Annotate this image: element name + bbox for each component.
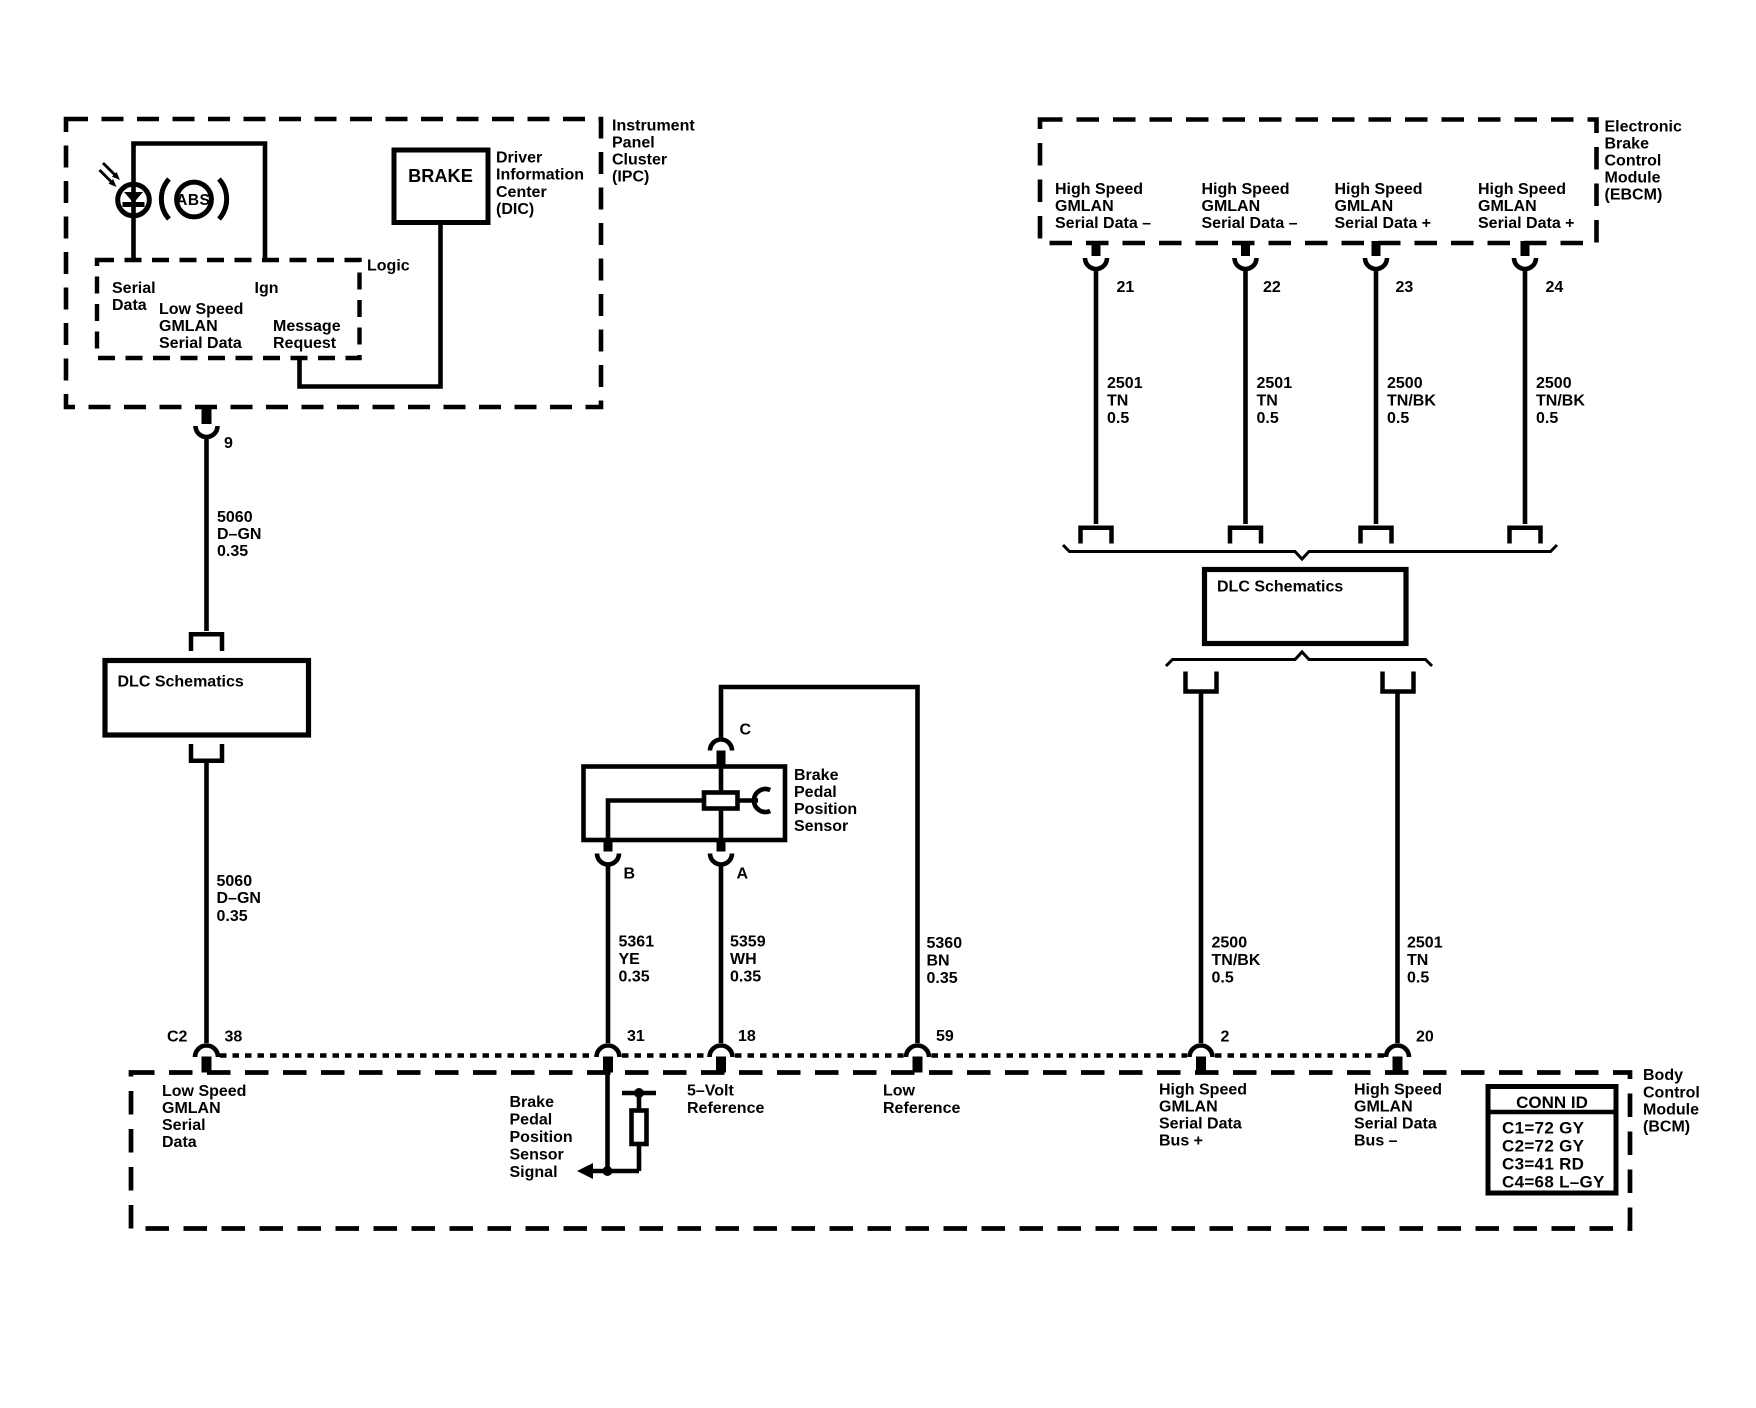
svg-text:Electronic: Electronic xyxy=(1605,119,1682,136)
brace: gathering EBCM wires into DLC xyxy=(1063,545,1557,559)
svg-text:Serial Data +: Serial Data + xyxy=(1335,215,1432,232)
svg-text:Body: Body xyxy=(1643,1067,1683,1084)
svg-text:B: B xyxy=(624,866,636,883)
connector pin 20: stub into BCM xyxy=(1393,1057,1403,1073)
wire: 5361 YE from pin B to BCM pin 31 xyxy=(606,864,611,1044)
svg-text:5359: 5359 xyxy=(730,934,766,951)
svg-text:TN/BK: TN/BK xyxy=(1212,952,1261,969)
label: circuit 2500 TN/BK 0.5 (pin 24) xyxy=(1536,375,1585,427)
svg-text:Request: Request xyxy=(273,335,337,352)
svg-text:2: 2 xyxy=(1221,1029,1230,1046)
connector staple above wire to pin 20 xyxy=(1383,672,1414,692)
svg-text:Information: Information xyxy=(496,167,584,184)
svg-text:Serial: Serial xyxy=(112,280,156,297)
wire: 5060 D-GN from pin 9 to DLC Schematics xyxy=(204,436,209,631)
svg-text:Low Speed: Low Speed xyxy=(159,301,243,318)
svg-text:TN: TN xyxy=(1407,952,1428,969)
svg-text:0.5: 0.5 xyxy=(1536,410,1558,427)
connector staple below wire 23 xyxy=(1361,528,1392,544)
svg-text:2500: 2500 xyxy=(1387,375,1423,392)
connector pin 2: stub into BCM xyxy=(1196,1057,1206,1073)
svg-text:20: 20 xyxy=(1416,1029,1434,1046)
svg-text:(BCM): (BCM) xyxy=(1643,1119,1690,1136)
svg-text:Brake: Brake xyxy=(1605,136,1650,153)
svg-text:C2: C2 xyxy=(167,1029,188,1046)
module box: Body Control Module (BCM) dashed outline xyxy=(131,1073,1630,1229)
label: 5-Volt Reference xyxy=(687,1083,764,1118)
svg-text:59: 59 xyxy=(936,1028,954,1045)
svg-text:Center: Center xyxy=(496,184,547,201)
connector pin 20: female dome at BCM xyxy=(1386,1046,1409,1058)
svg-text:5060: 5060 xyxy=(217,873,253,890)
svg-text:High Speed: High Speed xyxy=(1202,181,1290,198)
table: CONN ID box xyxy=(1488,1087,1616,1194)
symbol: left parenthesis of (ABS) xyxy=(161,179,169,219)
connector staple below wire 22 xyxy=(1230,528,1261,544)
svg-text:0.35: 0.35 xyxy=(217,543,248,560)
svg-text:Serial Data: Serial Data xyxy=(159,335,242,352)
svg-text:(EBCM): (EBCM) xyxy=(1605,187,1663,204)
svg-text:Data: Data xyxy=(112,297,147,314)
table: CONN ID header divider xyxy=(1491,1110,1614,1115)
label: High Speed GMLAN Serial Data + (pin 23) xyxy=(1335,181,1432,232)
connector staple above left DLC Schematics box xyxy=(191,634,222,651)
LED diode triangle xyxy=(124,192,143,203)
svg-text:Serial: Serial xyxy=(162,1117,206,1134)
wire: 5060 D-GN from DLC Schematics to BCM pin 38 xyxy=(204,761,209,1043)
svg-text:High Speed: High Speed xyxy=(1354,1082,1442,1099)
label: Message Request xyxy=(273,318,341,352)
wire: BCM internal sensor signal vertical xyxy=(605,1073,610,1172)
svg-text:31: 31 xyxy=(627,1028,645,1045)
svg-text:0.35: 0.35 xyxy=(730,969,761,986)
label: circuit 5359 WH 0.35 xyxy=(730,934,766,986)
LED arrow 1 xyxy=(103,163,120,180)
node: 5-volt supply tap bar xyxy=(622,1091,656,1095)
svg-text:D–GN: D–GN xyxy=(217,890,261,907)
svg-text:Sensor: Sensor xyxy=(510,1147,564,1164)
svg-text:High Speed: High Speed xyxy=(1335,181,1423,198)
label: circuit 2501 TN 0.5 (pin 22) xyxy=(1257,375,1293,427)
svg-text:A: A xyxy=(737,866,749,883)
connector pin 59: female dome at BCM xyxy=(906,1046,929,1058)
wire: 2501 TN from pin 21 xyxy=(1094,268,1099,524)
connector pin 31: female dome at BCM xyxy=(597,1046,620,1058)
wire: potentiometer wiper lead xyxy=(738,798,759,803)
wire: Message Request to BRAKE box xyxy=(300,225,441,387)
component box: Brake Pedal Position Sensor xyxy=(584,767,786,841)
svg-text:C: C xyxy=(740,722,752,739)
svg-text:Pedal: Pedal xyxy=(794,784,837,801)
label: High Speed GMLAN Serial Data - (pin 22) xyxy=(1202,181,1298,232)
svg-text:TN: TN xyxy=(1107,393,1128,410)
svg-text:5360: 5360 xyxy=(927,935,963,952)
symbol: right parenthesis of (ABS) xyxy=(219,179,227,219)
module box: Instrument Panel Cluster (IPC) dashed outline xyxy=(66,119,601,407)
svg-text:0.35: 0.35 xyxy=(217,908,248,925)
label: Brake Pedal Position Sensor xyxy=(794,767,857,835)
svg-text:Serial Data: Serial Data xyxy=(1159,1116,1242,1133)
svg-text:WH: WH xyxy=(730,951,757,968)
svg-text:Serial Data –: Serial Data – xyxy=(1055,215,1151,232)
logic block: IPC internal dashed box xyxy=(97,260,360,358)
connector row: dotted line segment 5 xyxy=(1215,1053,1384,1057)
svg-text:TN/BK: TN/BK xyxy=(1387,393,1436,410)
connector pin 21: stub below EBCM xyxy=(1092,241,1101,256)
svg-text:Serial Data +: Serial Data + xyxy=(1478,215,1575,232)
svg-text:YE: YE xyxy=(619,951,641,968)
svg-text:High Speed: High Speed xyxy=(1159,1082,1247,1099)
svg-text:2501: 2501 xyxy=(1257,375,1293,392)
connector pin B: female cup xyxy=(597,854,619,865)
label: circuit 2500 TN/BK 0.5 (lower) xyxy=(1212,935,1261,987)
connector staple below wire 21 xyxy=(1081,528,1112,544)
svg-text:Module: Module xyxy=(1643,1102,1699,1119)
connector pin C: stub into sensor box xyxy=(717,751,726,769)
svg-text:Control: Control xyxy=(1605,153,1662,170)
svg-text:0.5: 0.5 xyxy=(1407,970,1429,987)
label: Low Speed GMLAN Serial Data (BCM) xyxy=(162,1083,246,1151)
svg-text:ABS: ABS xyxy=(176,192,210,209)
label: circuit 2500 TN/BK 0.5 (pin 23) xyxy=(1387,375,1436,427)
svg-text:High Speed: High Speed xyxy=(1055,181,1143,198)
svg-text:Panel: Panel xyxy=(612,135,655,152)
svg-text:CONN ID: CONN ID xyxy=(1516,1093,1588,1112)
resistor: BCM internal pull-up xyxy=(632,1111,647,1145)
connector pin 24: female cup xyxy=(1514,258,1536,269)
wire: IPC internal loop from ABS lamp top to Ign input xyxy=(134,144,266,261)
svg-text:23: 23 xyxy=(1396,279,1414,296)
connector pin 59: stub into BCM xyxy=(913,1057,923,1073)
wire: BCM internal sensor signal horizontal xyxy=(588,1169,639,1174)
connector pin 18: female dome at BCM xyxy=(710,1046,733,1058)
svg-text:22: 22 xyxy=(1263,279,1281,296)
connector row: dotted line segment 1 xyxy=(220,1053,594,1057)
svg-text:GMLAN: GMLAN xyxy=(1335,198,1394,215)
connector pin 38: stub into BCM xyxy=(202,1057,212,1073)
svg-text:TN/BK: TN/BK xyxy=(1536,393,1585,410)
svg-text:Message: Message xyxy=(273,318,341,335)
label: Driver Information Center (DIC) xyxy=(496,150,584,219)
svg-text:0.35: 0.35 xyxy=(927,970,958,987)
connector staple below wire 24 xyxy=(1510,528,1541,544)
resistor: sensor potentiometer element xyxy=(704,793,738,809)
svg-text:GMLAN: GMLAN xyxy=(1055,198,1114,215)
wire: sensor top loop 5360 BN run xyxy=(721,687,918,1043)
label: Electronic Brake Control Module (EBCM) xyxy=(1605,119,1682,204)
svg-text:21: 21 xyxy=(1117,279,1135,296)
svg-text:Pedal: Pedal xyxy=(510,1112,553,1129)
svg-text:(DIC): (DIC) xyxy=(496,201,534,218)
connector staple above wire to pin 2 xyxy=(1186,672,1217,692)
svg-text:GMLAN: GMLAN xyxy=(1202,198,1261,215)
svg-text:GMLAN: GMLAN xyxy=(1354,1099,1413,1116)
svg-text:0.5: 0.5 xyxy=(1387,410,1409,427)
component box: DLC Schematics (right) xyxy=(1205,570,1407,644)
label: Brake Pedal Position Sensor Signal xyxy=(510,1094,573,1181)
junction: supply tap dot xyxy=(634,1088,644,1098)
svg-text:GMLAN: GMLAN xyxy=(1478,198,1537,215)
svg-text:Sensor: Sensor xyxy=(794,818,848,835)
svg-text:Bus –: Bus – xyxy=(1354,1133,1398,1150)
arrow: sensor signal direction xyxy=(577,1163,593,1179)
connector pin 22: stub below EBCM xyxy=(1241,241,1250,256)
svg-text:5–Volt: 5–Volt xyxy=(687,1083,735,1100)
connector row: dotted line segment 2 xyxy=(622,1053,707,1057)
wire: pull-up resistor top lead xyxy=(637,1093,642,1111)
svg-text:2501: 2501 xyxy=(1407,935,1443,952)
svg-text:DLC Schematics: DLC Schematics xyxy=(118,674,244,691)
connector pin 22: female cup xyxy=(1235,258,1257,269)
svg-text:Bus +: Bus + xyxy=(1159,1133,1203,1150)
svg-text:Brake: Brake xyxy=(794,767,839,784)
svg-text:(IPC): (IPC) xyxy=(612,169,649,186)
wire: pull-up resistor bottom lead xyxy=(637,1144,642,1171)
label: circuit 5060 D-GN 0.35 (upper) xyxy=(217,509,261,560)
wire: 2500 TN/BK from DLC to BCM pin 2 xyxy=(1199,694,1204,1044)
connector pin 23: stub below EBCM xyxy=(1372,241,1381,256)
wire: ABS lamp cathode to Serial Data input xyxy=(131,218,136,260)
svg-text:Serial Data –: Serial Data – xyxy=(1202,215,1298,232)
svg-text:Control: Control xyxy=(1643,1085,1700,1102)
label: circuit 2501 TN 0.5 (pin 21) xyxy=(1107,375,1143,427)
connector pin 21: female cup xyxy=(1085,258,1107,269)
svg-text:Reference: Reference xyxy=(883,1100,960,1117)
component box: BRAKE display (DIC) xyxy=(394,150,488,223)
connector row: dotted line segment 3 xyxy=(735,1053,904,1057)
connector pin 9: stub through IPC edge xyxy=(202,405,212,424)
svg-text:Brake: Brake xyxy=(510,1094,555,1111)
svg-text:Low Speed: Low Speed xyxy=(162,1083,246,1100)
svg-text:2501: 2501 xyxy=(1107,375,1143,392)
svg-text:Reference: Reference xyxy=(687,1100,764,1117)
module box: Electronic Brake Control Module (EBCM) dashed outline xyxy=(1040,120,1597,244)
connector pin 9: female cup xyxy=(196,426,218,437)
connector pin C: female dome above sensor xyxy=(710,740,732,751)
svg-text:TN: TN xyxy=(1257,393,1278,410)
wire: 2501 TN from pin 22 xyxy=(1243,268,1248,524)
connector pin 31: stub into BCM xyxy=(603,1057,613,1073)
svg-text:18: 18 xyxy=(738,1028,756,1045)
svg-text:Instrument: Instrument xyxy=(612,118,695,135)
svg-text:Low: Low xyxy=(883,1083,916,1100)
svg-text:D–GN: D–GN xyxy=(217,526,261,543)
svg-text:0.5: 0.5 xyxy=(1257,410,1279,427)
label: Low Reference xyxy=(883,1083,960,1118)
svg-text:BN: BN xyxy=(927,953,950,970)
connector pin 23: female cup xyxy=(1365,258,1387,269)
svg-text:9: 9 xyxy=(224,435,233,452)
svg-text:Data: Data xyxy=(162,1134,197,1151)
svg-text:DLC Schematics: DLC Schematics xyxy=(1217,579,1343,596)
label: circuit 2501 TN 0.5 (lower) xyxy=(1407,935,1443,987)
wire: sensor internal to pin B xyxy=(608,801,704,841)
connector pin B: stub below sensor box xyxy=(604,840,613,852)
svg-text:Module: Module xyxy=(1605,170,1661,187)
svg-text:Logic: Logic xyxy=(367,258,410,275)
connector pin 38: female dome at BCM xyxy=(195,1046,218,1058)
wire: sensor internal vertical C to A xyxy=(719,767,724,841)
svg-text:5060: 5060 xyxy=(217,509,253,526)
svg-text:0.5: 0.5 xyxy=(1212,970,1234,987)
svg-text:38: 38 xyxy=(225,1029,243,1046)
svg-text:Signal: Signal xyxy=(510,1164,558,1181)
svg-text:2500: 2500 xyxy=(1536,375,1572,392)
label: Instrument Panel Cluster (IPC) xyxy=(612,118,695,186)
label: Low Speed GMLAN Serial Data xyxy=(159,301,243,352)
svg-text:2500: 2500 xyxy=(1212,935,1248,952)
label: High Speed GMLAN Serial Data Bus - xyxy=(1354,1082,1442,1150)
svg-text:24: 24 xyxy=(1546,279,1564,296)
wire: 2500 TN/BK from pin 23 xyxy=(1374,268,1379,524)
svg-text:High Speed: High Speed xyxy=(1478,181,1566,198)
wire: 2501 TN from DLC to BCM pin 20 xyxy=(1395,694,1400,1044)
svg-text:0.5: 0.5 xyxy=(1107,410,1129,427)
svg-text:0.35: 0.35 xyxy=(619,969,650,986)
connector pin A: stub below sensor box xyxy=(717,840,726,852)
LED anode/cathode wire through lamp xyxy=(131,182,136,218)
label: circuit 5360 BN 0.35 xyxy=(927,935,963,987)
connector pin 24: stub below EBCM xyxy=(1521,241,1530,256)
svg-text:GMLAN: GMLAN xyxy=(1159,1099,1218,1116)
svg-text:5361: 5361 xyxy=(619,934,655,951)
svg-text:GMLAN: GMLAN xyxy=(159,318,218,335)
connector row: dotted line segment 4 xyxy=(932,1053,1188,1057)
svg-text:Position: Position xyxy=(510,1129,573,1146)
connector pin 2: female dome at BCM xyxy=(1190,1046,1213,1058)
svg-text:GMLAN: GMLAN xyxy=(162,1100,221,1117)
connector pin 18: stub into BCM xyxy=(716,1057,726,1073)
label: circuit 5361 YE 0.35 xyxy=(619,934,655,986)
svg-text:C1=72 GY: C1=72 GY xyxy=(1502,1119,1585,1138)
svg-text:C2=72 GY: C2=72 GY xyxy=(1502,1137,1585,1156)
svg-text:C4=68 L–GY: C4=68 L–GY xyxy=(1502,1173,1605,1192)
svg-text:C3=41 RD: C3=41 RD xyxy=(1502,1155,1584,1174)
label: Body Control Module (BCM) xyxy=(1643,1067,1700,1136)
label: circuit 5060 D-GN 0.35 (lower) xyxy=(217,873,261,925)
svg-text:BRAKE: BRAKE xyxy=(408,166,473,186)
svg-text:Ign: Ign xyxy=(255,280,279,297)
symbol: wiper contact cup xyxy=(754,789,770,812)
svg-text:Cluster: Cluster xyxy=(612,152,667,169)
label: High Speed GMLAN Serial Data + (pin 24) xyxy=(1478,181,1575,232)
LED arrow 2 xyxy=(100,170,117,187)
indicator lamp: ABS telltale LED circle xyxy=(118,184,150,216)
svg-text:Serial Data: Serial Data xyxy=(1354,1116,1437,1133)
connector pin A: female cup xyxy=(710,854,732,865)
LED cathode bar xyxy=(123,202,145,207)
wire: 5359 WH from pin A to BCM pin 18 xyxy=(719,864,724,1044)
label: High Speed GMLAN Serial Data - (pin 21) xyxy=(1055,181,1151,232)
svg-text:Position: Position xyxy=(794,801,857,818)
wire: 2500 TN/BK from pin 24 xyxy=(1523,268,1528,524)
component box: DLC Schematics (left) xyxy=(105,661,309,736)
label: Serial Data xyxy=(112,280,156,314)
svg-text:Driver: Driver xyxy=(496,150,542,167)
connector staple below left DLC Schematics box xyxy=(191,744,222,761)
brace: splitting DLC to BCM wires xyxy=(1166,652,1432,666)
label: High Speed GMLAN Serial Data Bus + xyxy=(1159,1082,1247,1150)
symbol: (ABS) telltale circle xyxy=(177,182,212,217)
junction: signal node dot xyxy=(603,1166,613,1176)
